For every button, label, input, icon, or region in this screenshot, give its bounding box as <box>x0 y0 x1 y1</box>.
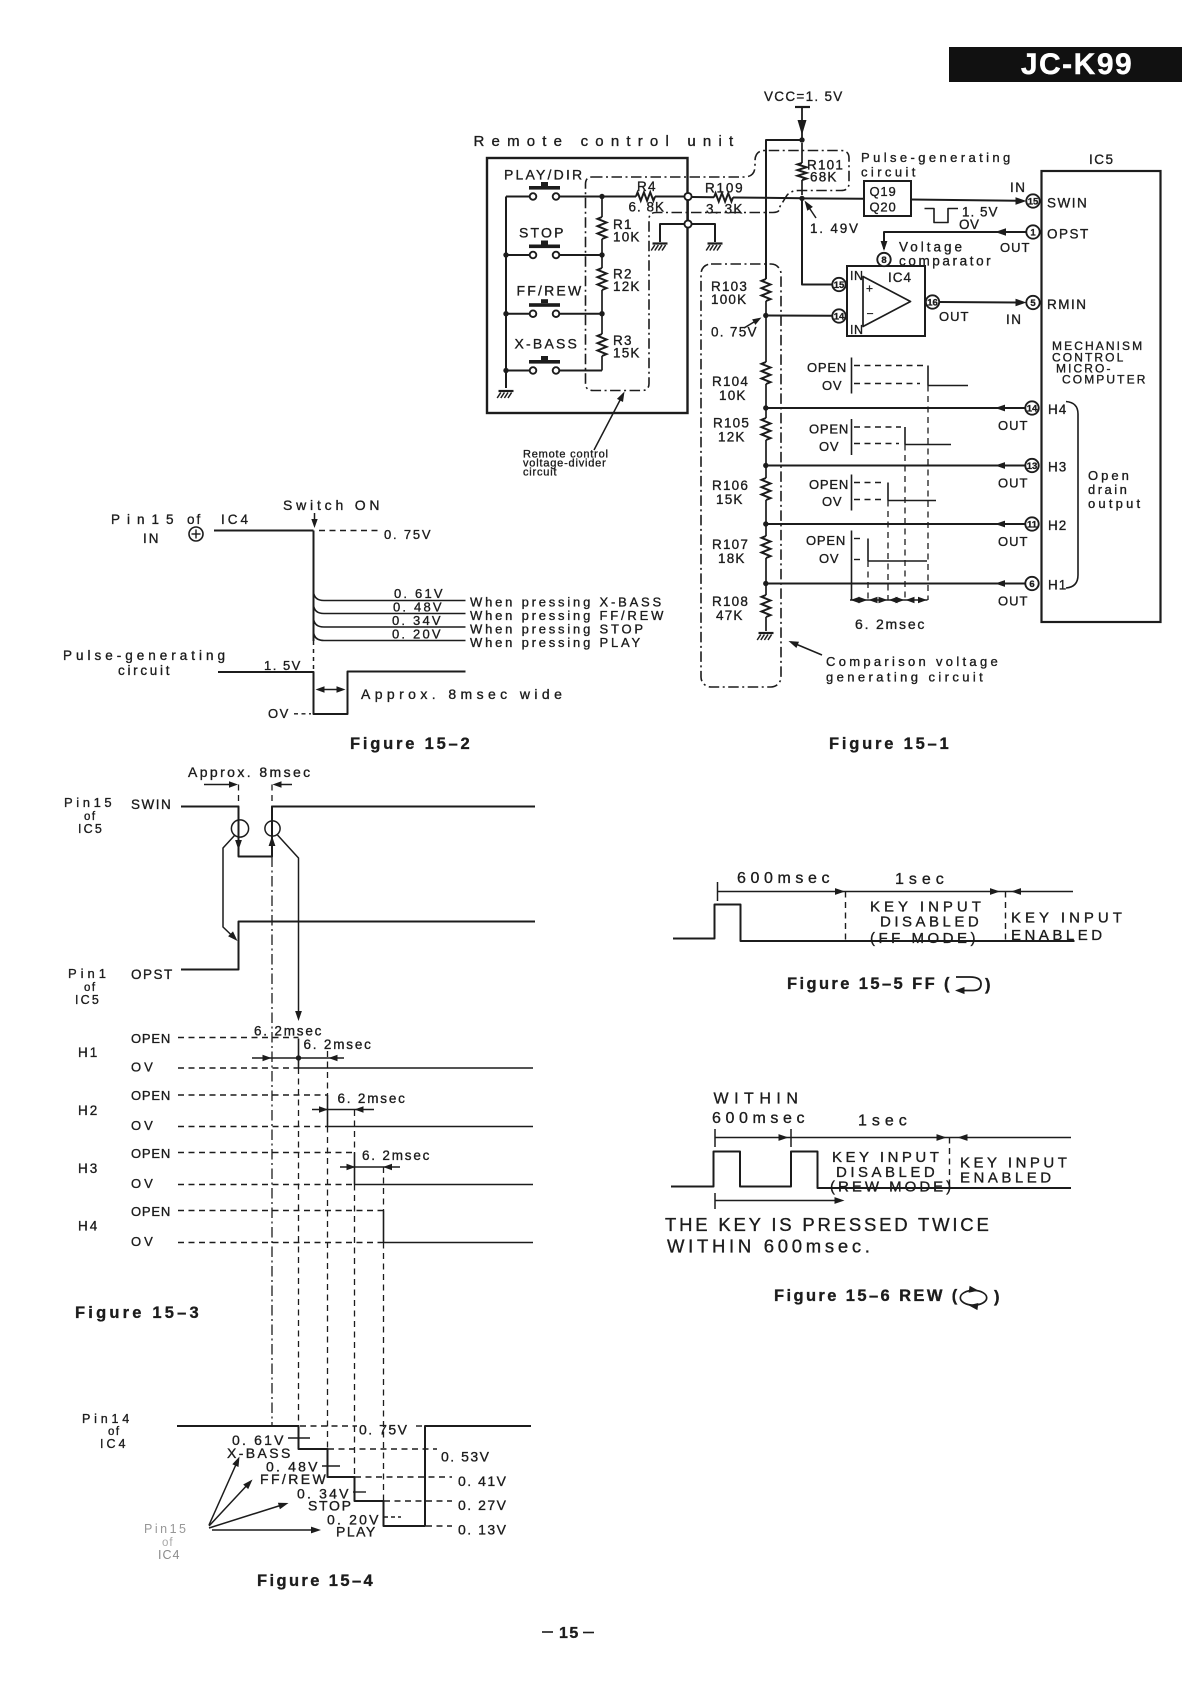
svg-text:COMPUTER: COMPUTER <box>1062 373 1147 387</box>
wire PLAY/DIR to R4 node <box>560 194 605 199</box>
svg-text:OPEN: OPEN <box>807 360 847 375</box>
svg-text:6: 6 <box>1029 579 1034 590</box>
resistor R105 12K <box>713 408 771 466</box>
arrow fan to STOP <box>209 1503 289 1528</box>
waveform sketch H3 open/ov <box>809 419 951 455</box>
waveform pin15 input level <box>214 531 314 672</box>
dashed 0.75V level figure 15-4 <box>300 1422 424 1438</box>
waveform H4 drop and ov <box>131 1211 533 1250</box>
svg-text:Q20: Q20 <box>870 200 897 215</box>
svg-text:Approx. 8msec wide: Approx. 8msec wide <box>361 686 566 702</box>
svg-text:OPEN: OPEN <box>131 1146 171 1161</box>
svg-text:15: 15 <box>834 280 845 291</box>
label Pin15 of IC4 faded <box>144 1522 188 1562</box>
label H3 <box>78 1161 99 1176</box>
svg-text:IC4: IC4 <box>100 1437 128 1451</box>
measure 6.2msec H3 <box>340 1148 431 1170</box>
node VCC rail junction <box>799 137 804 142</box>
svg-text:OPEN: OPEN <box>809 477 849 492</box>
caption Figure 15-5 FF <box>787 975 993 994</box>
power VCC=1.5V label <box>764 89 844 104</box>
svg-text:OPEN: OPEN <box>131 1031 171 1046</box>
resistor R103 100K <box>711 279 771 316</box>
caption Figure 15-3 <box>75 1304 202 1322</box>
ground left of R109 <box>651 244 667 251</box>
dashed measure verticals 6.2msec grid <box>868 386 928 601</box>
waveform staircase pin14 <box>177 1426 531 1526</box>
label pulse-generating circuit <box>63 648 229 678</box>
svg-text:18K: 18K <box>718 551 746 566</box>
svg-text:PLAY: PLAY <box>336 1524 377 1540</box>
switch STOP <box>519 225 566 259</box>
svg-text:Q19: Q19 <box>870 184 897 199</box>
label when pressing X-BASS <box>470 595 664 610</box>
switch FF/REW <box>517 283 584 318</box>
waveform fan 0.20V <box>314 627 466 642</box>
svg-text:Pin15: Pin15 <box>144 1522 188 1536</box>
svg-text:OPEN: OPEN <box>131 1088 171 1103</box>
svg-text:KEY INPUT: KEY INPUT <box>1011 910 1126 927</box>
label Switch ON with arrow <box>283 497 383 528</box>
page number 15 <box>542 1625 594 1642</box>
measure approx 8msec <box>316 686 567 702</box>
svg-text:H2: H2 <box>78 1103 99 1118</box>
svg-text:H4: H4 <box>78 1219 99 1234</box>
svg-text:OV: OV <box>822 378 842 393</box>
annotation comparison voltage generating circuit <box>789 641 1002 685</box>
pin 14 of IC4 <box>832 309 845 322</box>
measure 600msec figure 15-5 <box>718 870 1074 901</box>
dashed 0.27V level <box>384 1497 507 1513</box>
svg-text:Comparison voltage: Comparison voltage <box>826 654 1001 669</box>
switch PLAY/DIR <box>504 167 584 200</box>
wire STOP row <box>503 252 604 257</box>
dashed boundary REW enable <box>949 1138 951 1191</box>
svg-text:14: 14 <box>1027 403 1038 414</box>
wire 1.49V to IC4 pin15 <box>802 198 832 284</box>
label key input enabled REW <box>960 1155 1070 1187</box>
bracket open drain output pins <box>1066 402 1143 589</box>
svg-text:OUT: OUT <box>939 309 969 324</box>
svg-text:H3: H3 <box>1048 460 1067 475</box>
svg-text:X-BASS: X-BASS <box>515 336 580 352</box>
svg-text:Pin15: Pin15 <box>64 795 115 810</box>
pin 13 H3 of IC5 <box>1025 459 1067 475</box>
svg-text:PLAY/DIR: PLAY/DIR <box>504 167 584 183</box>
svg-text:OV: OV <box>131 1118 156 1133</box>
svg-text:13: 13 <box>1027 461 1038 472</box>
svg-text:6. 2msec: 6. 2msec <box>338 1091 407 1106</box>
svg-text:Pin1: Pin1 <box>68 966 110 981</box>
arrow fan to PLAY <box>212 1527 321 1534</box>
svg-text:OV: OV <box>819 551 839 566</box>
label voltage comparator <box>899 240 993 269</box>
wire Q19/Q20 to SWIN pin <box>911 180 1027 205</box>
pin 6 H1 of IC5 <box>1025 577 1067 593</box>
dashed 0.41V level <box>355 1473 507 1489</box>
waveform H2 drop and ov <box>131 1095 533 1133</box>
svg-text:Pulse-generating: Pulse-generating <box>861 150 1014 165</box>
measure 6.2msec row figure 15-1 <box>850 597 928 632</box>
svg-text:1: 1 <box>1030 227 1036 238</box>
waveform OPST <box>181 922 535 970</box>
svg-text:OV: OV <box>131 1060 156 1075</box>
wire H1 output <box>766 580 1029 608</box>
svg-text:OV: OV <box>131 1176 156 1191</box>
svg-text:1. 49V: 1. 49V <box>810 221 860 236</box>
label Pin1 of IC5 OPST <box>68 966 174 1007</box>
svg-text:0. 20V: 0. 20V <box>392 627 443 642</box>
svg-text:Figure 15–2: Figure 15–2 <box>350 735 473 753</box>
label OV level <box>268 706 311 721</box>
svg-text:8: 8 <box>881 255 886 266</box>
wire lower connector to grounds <box>660 224 715 242</box>
waveform FF key pulse <box>673 905 1075 942</box>
dashed 0.13V level <box>426 1522 507 1538</box>
waveform H3 drop and ov <box>131 1153 533 1192</box>
svg-text:OUT: OUT <box>998 418 1028 433</box>
svg-text:IN: IN <box>1006 312 1023 327</box>
svg-text:0. 75V: 0. 75V <box>711 325 758 340</box>
waveform sketch H4 open/ov <box>807 358 968 394</box>
svg-text:ENABLED: ENABLED <box>960 1170 1055 1187</box>
svg-text:10K: 10K <box>719 388 747 403</box>
node 0.75V tap <box>711 313 769 340</box>
svg-text:16: 16 <box>927 297 938 308</box>
resistor R107 18K <box>712 524 771 584</box>
op-amp IC4 voltage comparator <box>847 266 925 337</box>
model badge JC-K99 <box>949 47 1182 82</box>
dashed vertical H3 fall <box>354 1110 356 1477</box>
waveform fan 0.61V <box>314 586 466 601</box>
wire H3 output <box>766 462 1029 490</box>
label H2 <box>78 1103 99 1118</box>
svg-text:IC5: IC5 <box>1089 152 1115 167</box>
svg-text:ENABLED: ENABLED <box>1011 927 1106 944</box>
svg-text:circuit: circuit <box>118 663 172 678</box>
switch X-BASS <box>515 336 580 374</box>
measure approx 8msec figure 15-3 <box>188 764 313 806</box>
ground remote unit bus <box>497 391 513 398</box>
waveform glyph 1.5V pulse <box>925 205 999 233</box>
waveform fan 0.48V <box>314 600 466 615</box>
remote control unit box <box>474 133 741 413</box>
waveform sketch H1 open/ov <box>806 531 927 601</box>
svg-text:IN: IN <box>850 269 864 283</box>
node H2 tap <box>763 521 768 526</box>
caption Figure 15-1 <box>829 735 952 753</box>
arrow fan to X-BASS <box>209 1457 240 1526</box>
label 0.61V X-BASS step <box>227 1432 310 1461</box>
resistor R101 68K <box>798 143 845 195</box>
svg-text:15K: 15K <box>613 346 641 361</box>
svg-text:100K: 100K <box>711 292 747 307</box>
svg-text:output: output <box>1088 496 1143 511</box>
wire VCC rail to comparison chain <box>766 140 802 279</box>
label key input disabled REW mode <box>830 1149 954 1196</box>
pin 1 OPST of IC5 <box>1026 225 1089 241</box>
svg-text:Figure 15–3: Figure 15–3 <box>75 1304 202 1322</box>
svg-text:6. 2msec: 6. 2msec <box>362 1148 431 1163</box>
pin 15 SWIN of IC5 <box>1026 194 1088 210</box>
svg-text:Switch ON: Switch ON <box>283 497 383 513</box>
dashed boundary FF disable start <box>845 892 847 942</box>
wire VCC feed with arrow <box>795 107 810 140</box>
dashed 0.53V level <box>328 1449 490 1465</box>
waveform fan 0.34V <box>314 613 466 628</box>
svg-text:0. 13V: 0. 13V <box>458 1522 507 1538</box>
svg-text:3. 3K: 3. 3K <box>706 202 744 217</box>
label when pressing STOP <box>470 622 646 637</box>
label Pin15 of IC5 SWIN <box>64 795 172 836</box>
label 0.34V STOP step <box>297 1486 366 1514</box>
pin 16 of IC4 <box>926 295 970 324</box>
connector circle lower on remote box edge <box>684 200 691 227</box>
ground comparison chain <box>757 633 773 640</box>
arrow fan to FF/REW <box>209 1480 253 1527</box>
transistor block Q19 Q20 pulse-generating circuit <box>861 150 1014 216</box>
svg-text:R106: R106 <box>712 478 749 493</box>
svg-text:OV: OV <box>268 706 290 721</box>
label H4 <box>78 1219 99 1234</box>
svg-text:drain: drain <box>1088 482 1129 497</box>
resistor R4 6.8K <box>604 179 684 215</box>
dashed vertical H4 fall <box>383 1167 385 1501</box>
svg-text:10K: 10K <box>613 230 641 245</box>
svg-text:5: 5 <box>1030 298 1036 309</box>
label H1 <box>78 1045 99 1060</box>
svg-text:IC5: IC5 <box>78 822 104 836</box>
waveform pulse-generating output <box>218 672 466 715</box>
resistor R109 3.3K <box>692 181 802 217</box>
svg-text:68K: 68K <box>810 170 838 185</box>
label 0.48V FF/REW step <box>260 1459 340 1488</box>
svg-text:1. 5V: 1. 5V <box>264 658 302 673</box>
measure bracket pressed twice <box>715 1193 845 1209</box>
svg-text:OUT: OUT <box>998 476 1028 491</box>
svg-text:H1: H1 <box>1048 578 1067 593</box>
svg-text:0. 27V: 0. 27V <box>458 1497 507 1513</box>
svg-text:Figure 15–5 FF (: Figure 15–5 FF ( <box>787 975 952 993</box>
annotation circle falling edge <box>231 820 248 837</box>
svg-text:VCC=1. 5V: VCC=1. 5V <box>764 89 844 104</box>
resistor R104 10K <box>712 316 771 409</box>
waveform sketch H2 open/ov <box>809 475 936 511</box>
waveform H2 open level <box>131 1088 328 1103</box>
label Pin14 of IC4 <box>82 1412 133 1451</box>
dashed 0.75V level <box>319 527 432 542</box>
svg-text:0. 41V: 0. 41V <box>458 1473 507 1489</box>
label 1.5V level <box>264 658 302 673</box>
svg-text:OUT: OUT <box>998 594 1028 609</box>
svg-text:JC-K99: JC-K99 <box>1021 48 1133 81</box>
dashed vertical H2 fall <box>327 1051 329 1449</box>
svg-text:14: 14 <box>834 311 845 322</box>
resistor R3 15K <box>598 314 641 371</box>
svg-text:OV: OV <box>822 494 842 509</box>
svg-text:RMIN: RMIN <box>1047 297 1088 312</box>
svg-text:R105: R105 <box>713 416 750 431</box>
resistor R2 12K <box>598 255 641 314</box>
svg-text:OPEN: OPEN <box>806 533 846 548</box>
svg-text:+: + <box>866 282 873 296</box>
svg-text:6. 8K: 6. 8K <box>629 200 666 215</box>
resistor R1 10K <box>598 197 641 256</box>
dash-dot vertical from SWIN rise <box>271 857 273 1427</box>
annotation arrow rising edge to H1 <box>278 835 302 1021</box>
label when pressing PLAY <box>470 635 643 650</box>
svg-text:6. 2msec: 6. 2msec <box>304 1037 373 1052</box>
svg-text:IC4: IC4 <box>158 1548 180 1562</box>
wire FF/REW row <box>503 311 604 316</box>
svg-text:generating circuit: generating circuit <box>826 670 986 685</box>
svg-text:H4: H4 <box>1048 402 1067 417</box>
svg-text:WITHIN 600msec.: WITHIN 600msec. <box>667 1236 874 1257</box>
wire left bus <box>506 197 530 389</box>
ground right of R109 <box>706 244 722 251</box>
svg-text:R109: R109 <box>705 181 744 196</box>
svg-text:OPEN: OPEN <box>809 422 849 437</box>
svg-text:Pin15: Pin15 <box>111 512 181 527</box>
measure within 600msec figure 15-6 <box>712 1091 1071 1148</box>
svg-text:12K: 12K <box>613 279 641 294</box>
svg-text:R107: R107 <box>712 537 749 552</box>
svg-text:IC4: IC4 <box>221 512 251 527</box>
waveform SWIN <box>181 807 535 857</box>
svg-text:SWIN: SWIN <box>131 797 172 812</box>
caption Figure 15-6 REW <box>774 1286 1002 1310</box>
svg-text:circuit: circuit <box>523 467 557 479</box>
annotation remote control voltage-divider circuit <box>523 392 625 479</box>
label Pin15 of IC4 input <box>111 512 251 546</box>
svg-text:600msec: 600msec <box>737 870 834 887</box>
waveform REW key pulses <box>671 1152 1071 1189</box>
edge arrows on SWIN pulse <box>235 836 275 850</box>
label key input disabled FF mode <box>870 899 985 948</box>
svg-text:11: 11 <box>1027 519 1038 530</box>
wire X-BASS row <box>503 368 602 373</box>
svg-text:OPEN: OPEN <box>131 1204 171 1219</box>
label when pressing FF/REW <box>470 608 666 623</box>
caption Figure 15-4 <box>257 1572 375 1590</box>
svg-text:H2: H2 <box>1048 518 1067 533</box>
caption Figure 15-2 <box>350 735 473 753</box>
svg-text:IN: IN <box>850 323 864 337</box>
svg-text:): ) <box>994 1288 1002 1306</box>
waveform H4 open level <box>131 1204 384 1219</box>
svg-text:of: of <box>187 512 202 527</box>
svg-text:OPST: OPST <box>1047 227 1090 242</box>
svg-text:FF/REW: FF/REW <box>517 283 584 299</box>
svg-text:0. 75V: 0. 75V <box>384 527 432 542</box>
svg-text:Approx. 8msec: Approx. 8msec <box>188 764 313 780</box>
svg-text:When pressing PLAY: When pressing PLAY <box>470 635 643 650</box>
node H4 tap <box>763 405 768 410</box>
wire H4 output <box>766 405 1029 433</box>
svg-text:15: 15 <box>1028 196 1039 207</box>
svg-text:47K: 47K <box>716 608 744 623</box>
resistor R106 15K <box>712 466 771 525</box>
node H1 tap <box>763 581 768 586</box>
node H3 tap <box>763 463 768 468</box>
svg-text:15: 15 <box>559 1625 580 1642</box>
svg-text:OUT: OUT <box>1000 240 1030 255</box>
svg-text:(REW MODE): (REW MODE) <box>830 1179 954 1196</box>
svg-text:H3: H3 <box>78 1161 99 1176</box>
svg-text:SWIN: SWIN <box>1047 196 1088 211</box>
pin 14 H4 of IC5 <box>1025 401 1067 417</box>
svg-text:1sec: 1sec <box>895 871 949 888</box>
measure 6.2msec H1 labels <box>254 1024 373 1053</box>
svg-text:Open: Open <box>1088 468 1132 483</box>
wire H2 output <box>766 521 1029 549</box>
svg-text:OV: OV <box>131 1234 156 1249</box>
svg-text:OV: OV <box>819 439 839 454</box>
pin 11 H2 of IC5 <box>1025 517 1067 533</box>
annotation arrow falling edge to OPST <box>223 836 238 942</box>
svg-text:R4: R4 <box>637 179 657 194</box>
svg-text:Pulse-generating: Pulse-generating <box>63 648 229 663</box>
svg-text:Figure 15–6 REW (: Figure 15–6 REW ( <box>774 1287 960 1305</box>
svg-text:0. 53V: 0. 53V <box>441 1449 490 1465</box>
svg-text:Figure 15–4: Figure 15–4 <box>257 1572 375 1590</box>
svg-text:Remote control unit: Remote control unit <box>474 133 741 150</box>
dashed vertical H1 fall <box>298 1068 300 1426</box>
svg-text:circuit: circuit <box>861 165 919 180</box>
svg-text:(FF MODE): (FF MODE) <box>870 930 979 947</box>
svg-text:R108: R108 <box>712 594 749 609</box>
svg-text:H1: H1 <box>78 1045 99 1060</box>
wire 0.75V tap to IC4 pin14 <box>766 315 833 317</box>
svg-text:−: − <box>867 307 874 321</box>
svg-text:IN: IN <box>1010 180 1027 195</box>
waveform H3 open level <box>131 1146 355 1161</box>
svg-text:0. 75V: 0. 75V <box>359 1422 408 1438</box>
label the key is pressed twice <box>665 1214 992 1257</box>
dashed boundary FF enable <box>1005 892 1007 942</box>
svg-text:OUT: OUT <box>998 534 1028 549</box>
pin 5 RMIN of IC5 <box>1026 296 1087 312</box>
annotation circle rising edge <box>265 821 280 836</box>
svg-text:600msec: 600msec <box>712 1110 809 1127</box>
svg-text:IN: IN <box>143 531 161 546</box>
svg-text:OPST: OPST <box>131 967 174 982</box>
svg-text:15K: 15K <box>716 492 744 507</box>
waveform H1 drop and ov <box>131 1039 533 1075</box>
dash-dot outline comparison voltage generating circuit <box>701 264 781 687</box>
svg-text:STOP: STOP <box>519 225 566 241</box>
wire 1.49V node to Q19/Q20 <box>802 197 864 199</box>
label key input enabled FF <box>1011 910 1126 945</box>
connector circle upper on remote box edge <box>684 193 691 200</box>
svg-text:THE KEY IS PRESSED TWICE: THE KEY IS PRESSED TWICE <box>665 1214 992 1235</box>
resistor R108 47K <box>712 584 771 632</box>
svg-text:WITHIN: WITHIN <box>714 1091 804 1108</box>
measure 6.2msec H2 <box>312 1091 407 1113</box>
node 1.49V junction <box>799 196 860 236</box>
dash-dot outline remote voltage-divider block <box>586 151 850 391</box>
measure 6.2msec H1 arrows <box>252 1055 344 1061</box>
pin 15 of IC4 <box>832 278 845 291</box>
svg-text:6. 2msec: 6. 2msec <box>855 616 926 632</box>
svg-text:IC4: IC4 <box>888 270 912 285</box>
svg-text:R104: R104 <box>712 374 749 389</box>
svg-text:OV: OV <box>959 217 980 232</box>
svg-text:Figure 15–1: Figure 15–1 <box>829 735 952 753</box>
svg-text:1sec: 1sec <box>858 1113 912 1130</box>
IC5 mechanism control microcomputer box <box>1042 152 1161 622</box>
svg-text:Voltage: Voltage <box>899 240 965 255</box>
